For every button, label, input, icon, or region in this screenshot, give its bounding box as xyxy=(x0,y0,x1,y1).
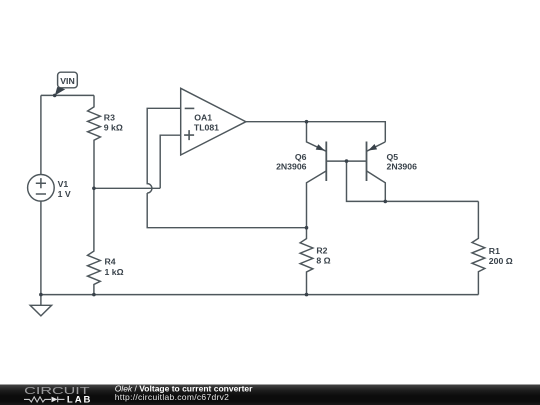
resistor R2 xyxy=(300,228,313,295)
svg-text:1 kΩ: 1 kΩ xyxy=(105,267,124,277)
svg-text:1 V: 1 V xyxy=(58,189,71,199)
transistor Q5 base bar xyxy=(366,142,368,182)
svg-text:2N3906: 2N3906 xyxy=(387,162,418,172)
node ground junction xyxy=(39,293,43,297)
node VIN attach dot xyxy=(53,94,57,98)
wire left vertical to V1 xyxy=(40,95,42,174)
node V1/R3/R4 junction xyxy=(92,187,96,191)
node op-amp output junction xyxy=(305,120,309,124)
node R2 bottom junction xyxy=(305,293,309,297)
node Q5 collector junction xyxy=(384,200,388,204)
wire minus feedback with hop xyxy=(147,108,306,227)
svg-text:R4: R4 xyxy=(105,257,116,267)
wire node to plus input xyxy=(94,135,181,188)
voltage source V1 xyxy=(28,175,55,202)
svg-text:LAB: LAB xyxy=(67,394,93,405)
transistor Q6 emitter wire xyxy=(307,122,327,152)
resistor R4 xyxy=(88,188,101,294)
svg-text:R1: R1 xyxy=(489,246,500,256)
svg-text:Q5: Q5 xyxy=(387,152,399,162)
svg-text:OA1: OA1 xyxy=(194,113,212,123)
node R4 bottom junction xyxy=(92,293,96,297)
ground xyxy=(30,295,51,316)
node base junction xyxy=(345,159,349,163)
wire bottom rail xyxy=(41,294,479,296)
svg-text:9 kΩ: 9 kΩ xyxy=(104,123,123,133)
svg-text:2N3906: 2N3906 xyxy=(276,162,307,172)
op-amp OA1 body xyxy=(181,88,246,155)
transistor Q6 collector wire xyxy=(307,171,327,228)
svg-text:R2: R2 xyxy=(316,245,327,255)
op-amp OA1 non-inverting input marker xyxy=(184,130,194,140)
wire base connection xyxy=(326,161,478,201)
wire V1 bottom to ground node xyxy=(40,201,42,295)
svg-text:http://circuitlab.com/c67drv2: http://circuitlab.com/c67drv2 xyxy=(115,392,230,402)
resistor R3 xyxy=(88,95,101,188)
logo resistor zigzag xyxy=(24,397,65,403)
svg-text:TL081: TL081 xyxy=(194,122,219,132)
node R2 top junction xyxy=(305,226,309,230)
svg-text:R3: R3 xyxy=(104,113,115,123)
flag VIN pointer xyxy=(55,87,65,95)
transistor Q5 collector wire xyxy=(367,171,386,202)
svg-text:Q6: Q6 xyxy=(295,152,307,162)
transistor Q5 emitter wire xyxy=(367,142,386,151)
flag VIN xyxy=(58,72,78,88)
svg-text:V1: V1 xyxy=(58,179,69,189)
svg-text:200 Ω: 200 Ω xyxy=(489,256,513,266)
svg-text:VIN: VIN xyxy=(60,76,74,86)
wire VIN top horizontal xyxy=(41,94,94,96)
transistor Q5 arrow xyxy=(368,144,377,151)
transistor Q6 base bar xyxy=(325,142,327,182)
wire op-amp output rail xyxy=(246,122,385,142)
svg-text:8 Ω: 8 Ω xyxy=(316,256,330,266)
logo diode xyxy=(52,397,58,403)
op-amp OA1 inverting input marker xyxy=(185,107,195,109)
transistor Q6 arrow xyxy=(316,144,325,150)
resistor R1 xyxy=(472,201,485,294)
footer bar xyxy=(0,385,540,405)
